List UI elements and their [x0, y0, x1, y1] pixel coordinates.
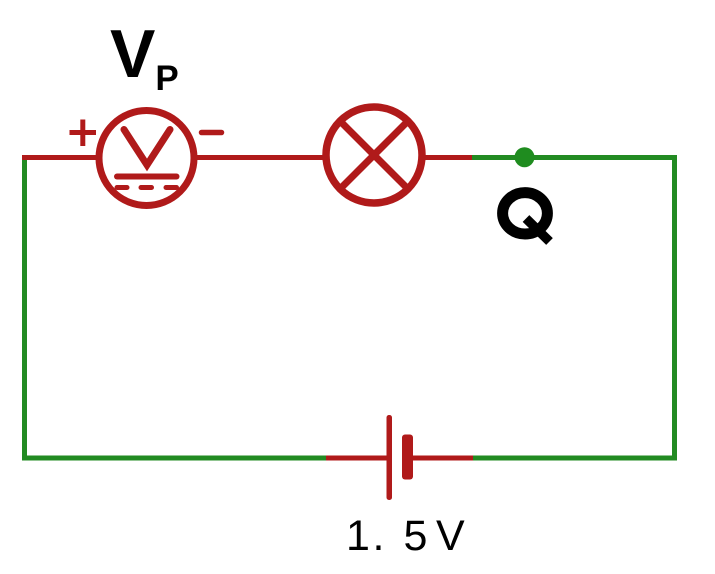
voltmeter VP: solid bar — [117, 174, 177, 180]
voltmeter VP: minus terminal mark — [202, 130, 222, 136]
wire: lamp to node segment (red) — [421, 155, 472, 160]
battery B1: short thick plate (negative) — [402, 435, 413, 480]
wire: bottom-left segment (green) — [22, 456, 326, 461]
wire: top-right segment (green) — [472, 155, 677, 160]
voltmeter VP: V mark — [124, 130, 170, 166]
label Q — [503, 193, 550, 242]
voltmeter VP: plus terminal mark — [70, 120, 97, 147]
svg-text:1.5V: 1.5V — [346, 512, 465, 560]
wire: bottom segment into battery left (red) — [326, 456, 387, 461]
lamp L1: circle body — [326, 107, 422, 203]
node Q: junction dot (green) — [515, 147, 535, 167]
wire: bottom-right segment (green) — [473, 456, 677, 461]
wire: left vertical segment (green) — [22, 155, 27, 460]
wire: bottom segment out of battery right (red) — [413, 456, 473, 461]
wire: top-left segment to voltmeter (red) — [22, 155, 99, 160]
voltmeter VP: dashed bar — [117, 185, 177, 190]
voltmeter VP: circle body — [99, 111, 194, 206]
battery B1: long thin plate (positive) — [387, 415, 393, 500]
lamp L1: X mark — [342, 123, 407, 188]
wire: voltmeter to lamp segment (red) — [194, 155, 327, 160]
wire: right vertical segment (green) — [672, 155, 677, 460]
svg-text:VP: VP — [110, 16, 179, 98]
